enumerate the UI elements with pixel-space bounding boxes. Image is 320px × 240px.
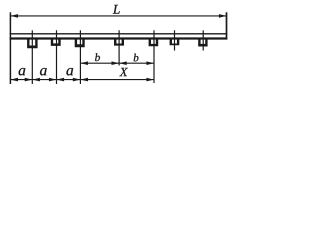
arrow b2 left — [119, 61, 127, 65]
tab T5 — [149, 38, 159, 46]
arrow a2 left — [32, 78, 40, 82]
arrow a3 left — [57, 78, 65, 82]
arrow L left — [10, 14, 18, 18]
tab T6 — [170, 38, 180, 45]
center line tab T5 — [153, 30, 155, 83]
right extension line / bar right edge — [226, 12, 228, 39]
arrow a2 right — [49, 78, 57, 82]
label b1 — [95, 53, 100, 61]
center line tab T1 — [31, 30, 33, 84]
arrow a1 right — [25, 78, 33, 82]
label a2 — [40, 68, 47, 75]
label L — [113, 5, 120, 14]
arrow X right — [146, 78, 154, 82]
bar bottom edge — [10, 37, 228, 39]
arrow b1 right — [112, 61, 120, 65]
arrow X left — [80, 78, 88, 82]
center line tab T4 — [118, 30, 120, 65]
dimension line b row — [80, 62, 154, 64]
bar top edge — [10, 33, 228, 35]
tab T4 — [114, 38, 124, 45]
arrow b2 right — [146, 61, 154, 65]
tab T7 — [198, 38, 207, 46]
center line tab T2 — [56, 30, 58, 84]
tab T3 — [75, 38, 85, 47]
center line tab T3 — [79, 30, 81, 84]
arrow a3 right — [73, 78, 81, 82]
arrow a1 left — [10, 78, 18, 82]
left extension line / bar left edge — [9, 12, 11, 84]
arrow b1 left — [80, 61, 88, 65]
label a1 — [19, 68, 26, 75]
label X — [119, 68, 127, 76]
label a3 — [66, 68, 73, 75]
center line tab T6 — [174, 30, 176, 50]
center line tab T7 — [202, 30, 204, 50]
label b2 — [134, 54, 139, 62]
dimension line a/X row — [10, 79, 154, 81]
arrow L right — [219, 14, 227, 18]
tab T1 — [27, 38, 38, 48]
dimension line L — [10, 15, 226, 17]
tab T2 — [51, 38, 61, 46]
